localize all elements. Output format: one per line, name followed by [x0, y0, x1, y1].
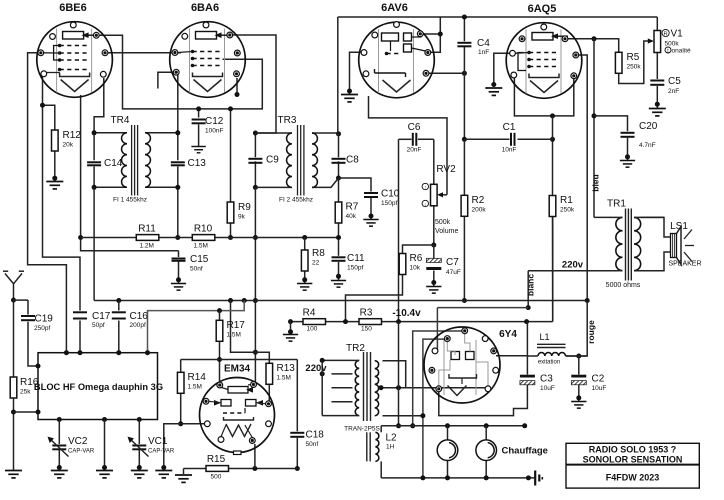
- svg-text:100: 100: [307, 326, 318, 333]
- node bus gray junction: [242, 298, 247, 303]
- svg-text:R1: R1: [560, 195, 573, 206]
- wire R4 ground stub: [290, 322, 292, 334]
- svg-text:6BA6: 6BA6: [191, 2, 219, 14]
- capacitor C16: [112, 312, 126, 318]
- svg-text:C9: C9: [266, 155, 279, 166]
- node C11 ground: [336, 274, 341, 279]
- wire detector to R7: [338, 178, 340, 202]
- variable capacitor VC2: [52, 446, 66, 450]
- wire 6AQ5 plate line: [566, 39, 619, 53]
- svg-text:RV2: RV2: [436, 164, 456, 175]
- ground box mid: [96, 471, 113, 478]
- resistor R1: [549, 196, 556, 217]
- wire R1 top: [552, 139, 554, 195]
- svg-text:C10: C10: [381, 189, 400, 200]
- svg-text:22: 22: [312, 260, 320, 267]
- node bias L1 junction: [524, 319, 529, 324]
- capacitor C19: [21, 316, 35, 320]
- node AVC R8 junction: [302, 235, 307, 240]
- svg-text:9k: 9k: [238, 214, 246, 221]
- wire C15 to ground: [178, 262, 180, 284]
- wire 6AV6 frame top: [338, 16, 658, 18]
- node TR3 prim top: [253, 131, 258, 136]
- transformer TR3: [287, 133, 292, 187]
- svg-text:blanc: blanc: [526, 274, 536, 296]
- svg-text:R15: R15: [207, 454, 226, 465]
- node box entry C17: [78, 350, 83, 355]
- ground R12: [46, 182, 63, 189]
- wire 6AV6 cathode to RV2 wiper: [369, 96, 448, 195]
- svg-text:10uF: 10uF: [592, 385, 607, 392]
- svg-text:-10.4v: -10.4v: [392, 308, 421, 319]
- wire C19 bottom to box: [28, 322, 38, 366]
- inductor L2: [375, 432, 378, 461]
- wire lamp1 bottom lead: [447, 461, 449, 478]
- node plate C20 junction: [592, 113, 597, 118]
- node C4 top: [462, 15, 467, 20]
- wire R14 bottom: [180, 394, 182, 424]
- wire R7 to C11: [338, 223, 340, 256]
- node C10 ground: [369, 214, 374, 219]
- wire R14 from line: [180, 360, 182, 373]
- node cathode box junction: [550, 113, 555, 118]
- resistor R14: [177, 372, 184, 393]
- svg-text:6BE6: 6BE6: [59, 2, 87, 14]
- svg-text:150pf: 150pf: [381, 200, 397, 207]
- svg-text:TR4: TR4: [111, 115, 130, 126]
- svg-text:FI 2 455khz: FI 2 455khz: [279, 197, 313, 204]
- svg-text:4.7nF: 4.7nF: [639, 142, 656, 149]
- svg-text:6AV6: 6AV6: [381, 2, 408, 14]
- wire C6 left drop: [398, 139, 400, 321]
- ground R4: [283, 335, 298, 342]
- svg-text:Volume: Volume: [435, 228, 458, 235]
- node bias R4 ground branch: [288, 319, 293, 324]
- wire R17 top stub: [219, 311, 221, 321]
- svg-text:bleu: bleu: [591, 174, 601, 191]
- wire R15 right line: [229, 468, 298, 470]
- node 6AV6 frame pin: [438, 32, 443, 37]
- wire 6AV6 grid left ground: [350, 52, 367, 94]
- resistor R2: [461, 195, 468, 216]
- node R14 bottom junction: [178, 421, 183, 426]
- svg-text:250k: 250k: [627, 64, 642, 71]
- resistor R12: [52, 130, 59, 151]
- svg-text:BLOC HF Omega dauphin 3G: BLOC HF Omega dauphin 3G: [34, 382, 163, 392]
- capacitor C13: [171, 162, 185, 165]
- wire RV1 bottom: [656, 53, 658, 79]
- wire RV2 bottom: [433, 206, 435, 245]
- svg-text:R13: R13: [277, 363, 296, 374]
- wire heater rail: [381, 425, 525, 427]
- node R17 top: [217, 308, 222, 313]
- svg-text:C6: C6: [408, 122, 421, 133]
- node lamp1 bottom: [445, 475, 450, 480]
- svg-text:VC1: VC1: [148, 436, 168, 447]
- wire C5 to ground: [656, 86, 658, 108]
- wire C15 stub: [178, 251, 180, 257]
- wire 6BA6 g left ground: [158, 72, 174, 88]
- wire TR1 secondary bottom: [641, 252, 672, 271]
- wire 6BA6 plate to TR3: [232, 35, 276, 133]
- node TR4 sec top: [175, 130, 180, 135]
- wire TR2 sec bottom tap: [383, 415, 423, 417]
- svg-text:TR3: TR3: [278, 115, 297, 126]
- variable capacitor VC1: [132, 446, 146, 450]
- transformer TR4: [122, 133, 127, 187]
- ground C7: [426, 287, 441, 294]
- ground antenna: [5, 471, 22, 478]
- svg-text:TRAN-2P5S: TRAN-2P5S: [344, 426, 380, 433]
- wire C7 to ground: [433, 271, 435, 287]
- wire C8 upper: [338, 134, 340, 158]
- node C2 junction: [576, 354, 581, 359]
- svg-text:R: R: [664, 32, 668, 38]
- resistor R7: [335, 202, 342, 223]
- node box vc2: [57, 417, 62, 422]
- svg-text:V1: V1: [671, 29, 684, 40]
- tube 6BE6: [37, 22, 113, 98]
- svg-text:EM34: EM34: [224, 364, 251, 375]
- wire TR3 primary rail: [254, 133, 256, 157]
- wire C11 to ground: [338, 262, 340, 280]
- wire R12 to ground: [54, 151, 56, 182]
- resistor R13: [266, 363, 273, 384]
- capacitor C1: [511, 133, 515, 146]
- svg-text:VC2: VC2: [68, 436, 88, 447]
- wire C4 from B+ rail: [463, 17, 465, 41]
- svg-text:C3: C3: [540, 374, 553, 385]
- svg-text:20k: 20k: [63, 142, 74, 149]
- svg-text:C13: C13: [188, 158, 207, 169]
- resistor R8: [301, 250, 308, 271]
- wire lamp2 bottom lead: [485, 461, 487, 478]
- node bus C16: [116, 298, 121, 303]
- svg-text:10uF: 10uF: [540, 385, 555, 392]
- node chassis dot: [526, 475, 531, 480]
- node VC2 gnd: [57, 465, 62, 470]
- svg-text:C14: C14: [104, 158, 123, 169]
- tube EM34: [200, 378, 275, 453]
- wire C12 to ground: [198, 125, 200, 147]
- wire C10 branch: [339, 178, 372, 192]
- node TR3 sec top: [336, 131, 341, 136]
- ground VC1: [131, 471, 148, 478]
- wire 6Y4 frame left: [436, 308, 438, 351]
- chassis symbol: [533, 477, 536, 479]
- wire C18 bottom: [296, 438, 298, 469]
- wire C1 right: [518, 138, 553, 140]
- svg-text:R5: R5: [627, 52, 640, 63]
- ground C10: [363, 220, 378, 227]
- node mid gnd: [102, 465, 107, 470]
- svg-text:50nf: 50nf: [190, 266, 203, 273]
- node C2 ground: [576, 395, 581, 400]
- node box entry gray: [145, 350, 150, 355]
- wire C20 to ground: [627, 138, 629, 160]
- svg-text:20nF: 20nF: [407, 147, 422, 154]
- wire 6Y4 wire b: [423, 339, 448, 478]
- svg-text:C17: C17: [92, 311, 111, 322]
- wire C17 bottom into BLOC HF: [79, 321, 81, 353]
- svg-text:150: 150: [361, 326, 372, 333]
- wire 6BE6 screen grid line: [96, 35, 262, 109]
- svg-text:C19: C19: [35, 314, 54, 325]
- wire C4 bottom: [463, 47, 465, 140]
- wire C18 drop: [296, 360, 298, 432]
- node TR3 rail AVC cross: [253, 235, 258, 240]
- capacitor C10: [364, 193, 378, 197]
- svg-text:CAP-VAR: CAP-VAR: [68, 449, 95, 455]
- node R2 bus junction: [462, 298, 467, 303]
- svg-text:R9: R9: [238, 202, 251, 213]
- node bus branch 230: [228, 298, 233, 303]
- wire 6AV6 diode2 to C4 line: [427, 72, 464, 74]
- wire C3 bottom path: [439, 385, 528, 416]
- wire R12 branch: [43, 105, 55, 130]
- svg-text:R11: R11: [138, 224, 156, 235]
- svg-text:Chauffage: Chauffage: [502, 446, 548, 457]
- wire lamp1 top lead: [447, 426, 449, 440]
- svg-text:250pf: 250pf: [34, 325, 50, 332]
- node TR4 sec bottom: [175, 185, 180, 190]
- transformer TR1: [616, 217, 623, 270]
- svg-text:10k: 10k: [410, 265, 421, 272]
- svg-text:2nF: 2nF: [668, 88, 679, 95]
- capacitor C7 electrolytic: [426, 258, 441, 262]
- wire L1 junction up: [526, 322, 528, 356]
- wire R8 to ground: [304, 271, 306, 283]
- wire blanc drop: [527, 271, 529, 308]
- wire 6BE6 g3 to 6BA6 g1: [104, 52, 181, 54]
- wire TR3 sec bottom diag: [312, 178, 339, 187]
- svg-text:1.5M: 1.5M: [227, 332, 241, 339]
- svg-text:250k: 250k: [560, 207, 575, 214]
- wire TR2 tap stub2: [332, 387, 353, 389]
- wire rouge drop: [566, 301, 587, 357]
- svg-text:1.5M: 1.5M: [188, 384, 202, 391]
- wire R8 drop: [304, 238, 306, 251]
- capacitor C4: [457, 43, 471, 47]
- wire heater bottom rail: [381, 477, 533, 479]
- wire C8 lower: [338, 161, 340, 178]
- svg-text:C5: C5: [668, 76, 681, 87]
- wire 6Y4 frame top: [437, 307, 528, 309]
- svg-text:40k: 40k: [346, 213, 357, 220]
- resistor R3: [359, 319, 382, 325]
- capacitor C15: [172, 259, 186, 261]
- node TR4 prim top: [92, 130, 97, 135]
- transformer TR2: [355, 360, 359, 415]
- wire VC1 drop: [138, 420, 140, 445]
- tube 6AV6: [359, 22, 435, 98]
- ground C5: [649, 109, 666, 116]
- ground C11: [331, 281, 346, 288]
- wire C16 from bus: [118, 301, 120, 311]
- speaker LS1: [671, 234, 677, 258]
- node bias R6 junction: [343, 319, 348, 324]
- wire TR1 secondary top: [641, 217, 672, 237]
- node R16 box branch: [11, 410, 16, 415]
- wire 6BE6 g1 to osc coil feed: [28, 53, 67, 353]
- wire TR4 rail down to bus: [93, 187, 95, 300]
- ground C12: [191, 147, 205, 153]
- node sec bottom junction: [420, 413, 425, 418]
- resistor R4: [303, 319, 326, 325]
- wire TR4 sec top rail: [145, 132, 178, 134]
- ground C15: [171, 284, 186, 291]
- svg-text:CAP-VAR: CAP-VAR: [148, 449, 175, 455]
- wire 6Y4 wire a: [413, 331, 465, 426]
- node 6BA6 cathode ground: [235, 92, 240, 97]
- wire TR3 rail down to EM34: [254, 187, 256, 382]
- svg-text:exitation: exitation: [538, 360, 560, 366]
- wire C2 to ground: [578, 385, 580, 402]
- tube 6Y4: [424, 327, 500, 403]
- svg-text:C1: C1: [503, 122, 516, 133]
- ground 6AQ5 grid: [485, 88, 502, 95]
- node heater rail left: [396, 423, 401, 428]
- svg-text:220v: 220v: [562, 260, 584, 271]
- wire R13 bottom: [268, 385, 270, 401]
- node sec CT: [379, 385, 384, 390]
- wire AVC line: [81, 237, 339, 239]
- node R4 gnd dot: [288, 329, 293, 334]
- node CT bias junction: [396, 385, 401, 390]
- wire antenna horiz to C19: [14, 299, 29, 301]
- node blanc frame junction: [526, 305, 531, 310]
- node TR4 prim bottom: [92, 185, 97, 190]
- wire R15 line: [184, 468, 207, 470]
- wire L1 left junction: [496, 355, 527, 357]
- node C1 line left junction: [462, 137, 467, 142]
- node heater rail end: [522, 423, 527, 428]
- node C5 ground: [655, 102, 660, 107]
- node C4 line junction: [462, 71, 467, 76]
- svg-text:C4: C4: [477, 38, 490, 49]
- wire gray grid line: [148, 301, 245, 353]
- wire TR3 prim coil top: [255, 132, 292, 134]
- wire C14 rail upper: [93, 133, 95, 161]
- capacitor C11: [332, 257, 346, 261]
- svg-text:C12: C12: [205, 116, 224, 127]
- svg-text:R14: R14: [188, 372, 207, 383]
- svg-text:C15: C15: [190, 254, 209, 265]
- node C15 ground: [176, 277, 181, 282]
- wire 6AQ5 g2 drop: [577, 55, 587, 301]
- wire C6 left: [399, 138, 412, 140]
- node lamp2 bottom: [484, 475, 489, 480]
- wire 6Y4 plate line: [381, 387, 488, 389]
- wire R2 line: [463, 139, 465, 300]
- node detector junction: [336, 176, 341, 181]
- wire R6 bottom: [346, 275, 403, 322]
- node lamp1 top: [445, 423, 450, 428]
- node box left entry: [36, 364, 41, 369]
- node box entry C16: [116, 350, 121, 355]
- wire VC1 bottom: [138, 450, 140, 470]
- svg-text:↑: ↑: [424, 185, 427, 191]
- node R12 ground: [52, 176, 57, 181]
- wire bias to R1: [552, 216, 554, 322]
- wire C2 drop: [578, 356, 580, 375]
- svg-text:TR1: TR1: [607, 199, 626, 210]
- wire TR2 mains top tap: [322, 359, 352, 361]
- wire EM34 left pin to ground: [164, 424, 209, 470]
- capacitor C6: [413, 133, 417, 146]
- resistor R10: [192, 235, 215, 241]
- ground R8: [297, 284, 312, 291]
- ground VC2: [51, 471, 68, 478]
- wire R9 drop: [230, 109, 232, 202]
- node box vc1: [137, 417, 142, 422]
- svg-text:LS1: LS1: [670, 221, 688, 232]
- wire TR4 primary bottom rail: [94, 186, 127, 188]
- svg-text:220v: 220v: [305, 363, 327, 374]
- wire 6AV6 diode plate: [421, 33, 440, 35]
- svg-text:1.2M: 1.2M: [140, 243, 154, 250]
- wire AVC bus: [94, 300, 587, 302]
- svg-text:5000 ohms: 5000 ohms: [606, 282, 641, 289]
- wire EM34 top line: [181, 359, 298, 361]
- svg-text:SPEAKER: SPEAKER: [668, 261, 701, 268]
- node RV2 bottom junction: [431, 243, 436, 248]
- node box mid: [102, 417, 107, 422]
- node R9 AVC junction: [228, 235, 233, 240]
- svg-text:C2: C2: [592, 374, 605, 385]
- node C7 ground: [431, 280, 436, 285]
- svg-text:1nF: 1nF: [478, 49, 489, 56]
- node EM34 gnd dot: [161, 465, 166, 470]
- node mains top: [320, 358, 325, 363]
- wire R9 bottom: [230, 223, 232, 238]
- wire bus to EM34 line: [231, 301, 256, 353]
- wire R16 bottom: [13, 398, 15, 470]
- wire 6AQ5 cathode box: [514, 76, 573, 116]
- capacitor C17: [73, 312, 87, 318]
- node heater rail a: [410, 423, 415, 428]
- ground EM34 left: [155, 471, 172, 478]
- wire R1 bottom crossing: [552, 217, 554, 322]
- wire C16 bottom: [118, 321, 120, 353]
- potentiometer RV2: [431, 184, 438, 206]
- svg-text:50nf: 50nf: [306, 441, 319, 448]
- wire bias -10.4v line: [291, 321, 553, 323]
- wire lamp2 top lead: [485, 426, 487, 440]
- wire R17 bottom to EM34: [219, 342, 221, 382]
- node R8 ground: [302, 277, 307, 282]
- svg-text:RADIO SOLO 1953 ?: RADIO SOLO 1953 ?: [589, 445, 677, 455]
- capacitor C12: [192, 120, 206, 124]
- svg-text:R2: R2: [472, 195, 485, 206]
- wire cathode to C1 node: [552, 116, 554, 139]
- capacitor C8: [332, 159, 346, 163]
- node screen-AVC junction: [78, 235, 83, 240]
- wire C14 rail lower: [93, 167, 95, 188]
- svg-text:500k: 500k: [435, 219, 451, 226]
- wire TR3 sec top rail: [312, 132, 339, 134]
- resistor R9: [227, 202, 234, 223]
- antenna: [5, 274, 14, 301]
- potentiometer RV1: [654, 31, 661, 53]
- resistor R5: [615, 52, 622, 73]
- svg-text:C20: C20: [639, 121, 658, 132]
- resistor R6: [399, 254, 406, 275]
- wire plate drop to TR1: [593, 39, 595, 218]
- svg-text:FI 1 455khz: FI 1 455khz: [113, 197, 147, 204]
- svg-text:L2: L2: [386, 433, 398, 444]
- svg-text:200pf: 200pf: [130, 322, 146, 329]
